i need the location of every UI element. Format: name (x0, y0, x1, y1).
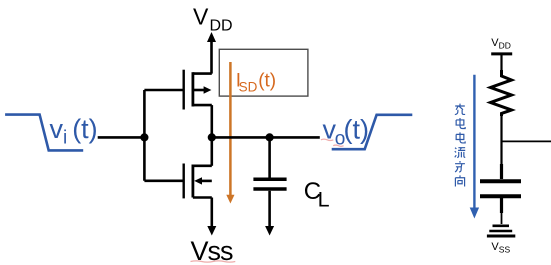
char 充 (455, 104, 465, 115)
Q1 arrow (points right) (194, 89, 204, 92)
wire VDD supply with up arrow (210, 40, 213, 74)
svg-text:v: v (50, 114, 64, 144)
wire Q1 drain to output node (211, 105, 214, 137)
Q2 source arm (bottom) (193, 196, 212, 199)
svg-text:L: L (318, 188, 330, 212)
svg-text:SS: SS (499, 244, 511, 254)
waveform output rising edge (332, 115, 413, 149)
wire Q2 drain to output node (211, 137, 214, 165)
svg-text:DD: DD (499, 41, 511, 51)
Q2 gate bar (182, 164, 184, 199)
capacitor (right) plates (480, 179, 521, 183)
resistor R (491, 70, 512, 116)
svg-text:(t): (t) (72, 114, 97, 144)
char 方 (455, 161, 465, 172)
wire Q1 gate lead (144, 89, 183, 92)
label VSS (right) (491, 241, 510, 254)
svg-text:V: V (193, 3, 209, 29)
label VDD (main) (193, 3, 233, 34)
spellcheck squiggle under vo (321, 139, 333, 140)
wire input (98, 136, 145, 139)
svg-text:SD: SD (239, 80, 258, 95)
wire resistor to capacitor (500, 114, 502, 166)
Q1 channel bar (191, 72, 194, 106)
label vo(t) (323, 115, 369, 150)
capacitor CL bottom lead with down arrow (268, 191, 271, 227)
Q1 drain arm (bottom) (193, 104, 212, 107)
arrow charging current direction (blue) (473, 75, 475, 209)
char 电 (456, 132, 465, 142)
label vi(t) (50, 114, 98, 149)
svg-text:i: i (63, 128, 67, 149)
junction output node at drain (208, 133, 216, 141)
waveform input falling edge (5, 115, 83, 151)
wire rail to resistor (500, 54, 502, 72)
junction output node at capacitor (266, 133, 274, 141)
transistor Q2 NMOS (184, 164, 212, 199)
wire output horizontal (212, 136, 320, 139)
label VDD (right) (491, 37, 511, 51)
wire tap to right edge (502, 140, 551, 142)
wire capacitor to ground (501, 213, 503, 224)
svg-text:DD: DD (210, 17, 233, 34)
Q2 arrow (points left) (202, 180, 212, 183)
capacitor (right) bottom stub (500, 198, 503, 213)
annotation box ISD (219, 49, 308, 96)
wire Q2 source to VSS with down arrow (211, 198, 214, 228)
transistor Q1 PMOS (184, 70, 212, 110)
ground symbol VSS (487, 226, 515, 236)
arrow ISD current direction (orange) (229, 62, 232, 196)
wire Q2 gate lead (144, 180, 183, 183)
spellcheck squiggle under Vss (191, 261, 236, 262)
Q1 source arm (top) (193, 72, 212, 75)
capacitor CL top lead (268, 137, 271, 177)
char 向 (455, 175, 464, 186)
label CL (304, 178, 330, 212)
Q1 gate bar (182, 70, 184, 110)
capacitor CL plates (253, 177, 286, 181)
capacitor (right) top stub (500, 164, 503, 179)
char 电 (456, 118, 465, 128)
Q2 drain arm (top) (193, 165, 212, 168)
svg-text:(t): (t) (258, 71, 276, 92)
label ISD(t) (236, 71, 276, 95)
power rail bar VDD (right) (491, 52, 512, 55)
junction input node (140, 133, 148, 141)
label charging current direction (Chinese, vertical) (455, 104, 465, 187)
wire gate bus vertical (143, 90, 146, 181)
Q2 channel bar (191, 165, 194, 198)
svg-text:(t): (t) (344, 115, 369, 145)
char 流 (455, 148, 465, 158)
